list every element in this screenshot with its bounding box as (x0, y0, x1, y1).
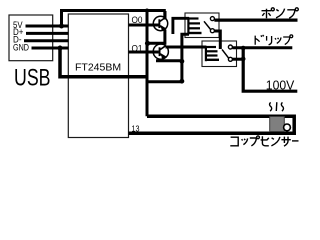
transistor Q1 circle (153, 16, 167, 30)
wire D1 base (129, 51, 159, 54)
node drip junction dot (241, 46, 246, 51)
wire relay2 bottom contact stub (232, 58, 243, 61)
wire relay1 coil top stub (173, 18, 189, 34)
node D0 crossing (145, 23, 149, 27)
wire branch to emitter bus (147, 80, 182, 83)
wire GND tap down and route under chip (60, 48, 149, 77)
wire drip line (232, 46, 292, 49)
label pump (katakana) (262, 8, 299, 18)
wire main vertical bus (146, 9, 149, 116)
se (261, 136, 269, 146)
svg-text:USB: USB (14, 65, 51, 92)
relay RL1 contact top (210, 17, 214, 21)
node rail T junction (145, 9, 149, 13)
wire D- pin (24, 39, 69, 42)
USB connector box (9, 15, 53, 61)
transistor Q1 internals (158, 18, 166, 32)
svg-text:FT245BM: FT245BM (75, 62, 121, 74)
cup sensor level squiggle (270, 102, 284, 111)
do (255, 35, 264, 45)
wire Q2 emitter route (156, 59, 182, 62)
small tsu (275, 37, 281, 43)
relay RL2 box (202, 41, 237, 67)
node branch dot (180, 79, 185, 84)
relay RL1 box (185, 13, 219, 38)
wire 5V pin (26, 25, 69, 28)
transistor Q2 internals (159, 46, 167, 60)
wire pump line (214, 18, 297, 21)
svg-text:O0: O0 (132, 15, 143, 26)
op-amp U1 FT245BM chip box (68, 14, 128, 138)
wire 5V tap up (60, 9, 63, 26)
wire D+ pin (26, 32, 69, 35)
pu (287, 10, 295, 18)
svg-text:13: 13 (132, 123, 140, 133)
relay RL1 coil (187, 17, 201, 34)
sa (281, 137, 290, 147)
ri (267, 36, 272, 45)
wire relay1 bottom contact down (214, 31, 220, 49)
node GND junction dot (58, 46, 63, 51)
node Q1 emitter dot (145, 41, 150, 46)
node 100V junction dot (241, 57, 246, 62)
node Q2 emitter dot (180, 59, 185, 64)
pu (283, 37, 290, 45)
wire top 5V rail (60, 9, 166, 12)
label drip (katakana) (255, 35, 292, 45)
relay RL2 contact top (228, 45, 232, 49)
label cup sensor (katakana) (230, 136, 298, 146)
svg-text:GND: GND (13, 42, 29, 53)
wire Q1 emitter route (147, 30, 165, 44)
small tsu (242, 138, 248, 144)
relay RL2 switch arm (222, 49, 229, 58)
cup sensor body (270, 117, 285, 132)
relay RL1 contact bottom (210, 29, 214, 33)
transistor Q2 circle (153, 44, 168, 59)
wire GND pin (32, 47, 69, 50)
relay RL2 contact bottom (228, 57, 232, 61)
relay RL1 switch arm (204, 21, 211, 30)
ko (230, 137, 238, 146)
wire 100V feed (243, 48, 297, 91)
n (276, 9, 285, 18)
chouon (292, 140, 299, 142)
relay RL2 coil (205, 46, 219, 61)
wire relay1 coil bottom stub to emitter bus (182, 34, 189, 81)
wire Q2 collector to relay2 coil (166, 46, 207, 49)
wire pin13 to sensor bottom (129, 131, 297, 135)
svg-text:O1: O1 (132, 43, 143, 54)
cup sensor ring (284, 124, 291, 131)
wire Q1 collector to rail (163, 11, 166, 20)
wire D0 base (129, 24, 159, 27)
po (262, 9, 272, 19)
n (271, 137, 280, 146)
node 5V junction dot (59, 24, 64, 29)
node D1 crossing (145, 50, 149, 54)
pu (250, 138, 257, 146)
wire sensor loop top (147, 116, 294, 133)
svg-text:100V: 100V (266, 77, 295, 92)
